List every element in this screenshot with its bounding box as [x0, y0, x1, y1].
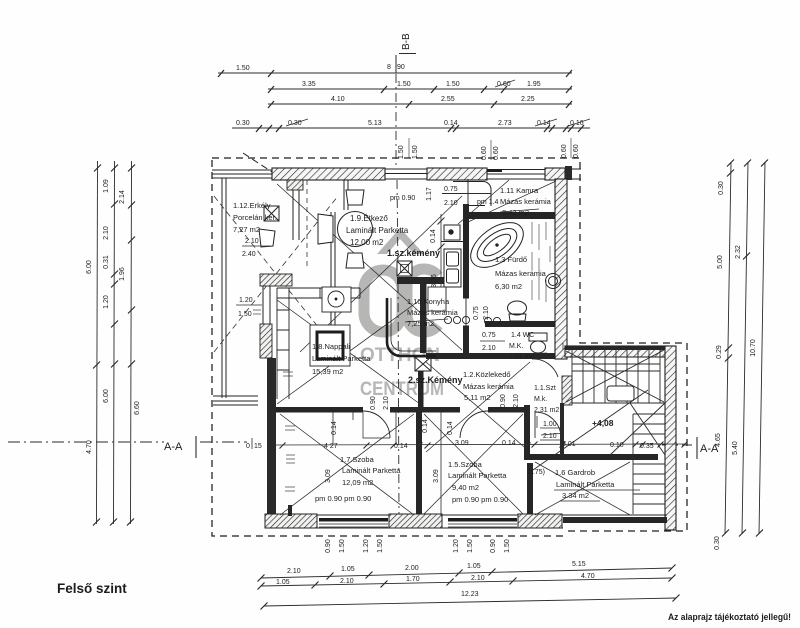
- dim row 0.30 0.30 5.13 0.14 2.73 0.14 0.16: [232, 127, 590, 129]
- svg-text:pm 0.90 pm 0.90: pm 0.90 pm 0.90: [452, 495, 508, 504]
- top wall window small: [487, 170, 545, 180]
- svg-text:3.01: 3.01: [562, 441, 576, 448]
- svg-text:pm 0.90: pm 0.90: [390, 195, 415, 202]
- overhead dashed line at door: [306, 180, 308, 270]
- svg-text:1.2.Közlekedő: 1.2.Közlekedő: [463, 370, 511, 379]
- svg-text:Felső szint: Felső szint: [57, 581, 127, 596]
- partition wall 1.7/1.5: [416, 412, 422, 517]
- roof slope diagonals room 1.7: [280, 414, 414, 515]
- svg-text:5.00: 5.00: [717, 255, 724, 269]
- svg-text:3.09: 3.09: [433, 469, 440, 483]
- watermark letter C: [407, 269, 438, 332]
- svg-text:2.14: 2.14: [119, 190, 126, 204]
- svg-text:3.09: 3.09: [325, 469, 332, 483]
- svg-text:4 27: 4 27: [324, 443, 338, 450]
- svg-text:8: 8: [387, 64, 391, 71]
- svg-text:2.10: 2.10: [483, 306, 490, 320]
- svg-text:2.10: 2.10: [245, 238, 259, 245]
- dimension chains bottom: [258, 561, 680, 610]
- svg-text:4.10: 4.10: [331, 96, 345, 103]
- svg-text:1.05: 1.05: [341, 566, 355, 573]
- section label B-B: [401, 33, 412, 50]
- svg-text:Laminált Parketta: Laminált Parketta: [342, 466, 401, 475]
- interior room dim line: [267, 442, 688, 449]
- svg-text:Laminált Parketta: Laminált Parketta: [346, 226, 409, 235]
- svg-text:1.5.Szoba: 1.5.Szoba: [448, 460, 483, 469]
- svg-text:Laminált Parketta: Laminált Parketta: [448, 471, 507, 480]
- svg-text:0.14: 0.14: [444, 120, 458, 127]
- bottom wall window 1: [319, 518, 388, 527]
- gardrob/stair bottom wall: [563, 517, 667, 523]
- svg-text:1.11 Kamra: 1.11 Kamra: [500, 186, 539, 195]
- bottom dim row 2: [261, 578, 672, 586]
- bath/wc divider wall: [485, 321, 567, 327]
- gardrob west wall: [527, 463, 533, 517]
- nappali counter top: [277, 288, 360, 298]
- roof slope diagonals gardrob: [535, 462, 630, 515]
- svg-text:Mázas kerámia: Mázas kerámia: [463, 382, 515, 391]
- dining table: [338, 212, 373, 247]
- watermark letter O: [364, 270, 402, 332]
- svg-text:pm 1.4: pm 1.4: [477, 199, 499, 206]
- main east wall hatched: [555, 179, 567, 359]
- svg-text:2.25: 2.25: [521, 96, 535, 103]
- dimension chains top: [218, 33, 590, 160]
- svg-text:6.00: 6.00: [103, 389, 110, 403]
- svg-text:2.10: 2.10: [103, 226, 110, 240]
- balcony door pier: [287, 180, 303, 190]
- partition stub at bottom wall: [288, 505, 292, 516]
- svg-text:2.55: 2.55: [441, 96, 455, 103]
- kitchen cabinet: [428, 287, 446, 311]
- svg-text:0.30: 0.30: [718, 181, 725, 195]
- svg-text:1.50: 1.50: [504, 539, 511, 553]
- bath washbasin: [546, 274, 561, 289]
- svg-text:1.8.Nappali: 1.8.Nappali: [312, 342, 350, 351]
- left chain line 2: [114, 161, 115, 524]
- svg-text:1.50: 1.50: [397, 81, 411, 88]
- bottom dim row 1: [261, 568, 672, 578]
- partition wall 1.5/stairs: [524, 405, 530, 460]
- svg-text:1.50: 1.50: [377, 539, 384, 553]
- section marker A-A right: [700, 443, 719, 455]
- svg-text:1.05: 1.05: [276, 579, 290, 586]
- top wall east end cap: [565, 166, 572, 180]
- svg-text:0.75): 0.75): [529, 469, 545, 476]
- bottom wall window 2: [448, 518, 517, 527]
- svg-text:1.95: 1.95: [527, 81, 541, 88]
- svg-text:1.9.Étkező: 1.9.Étkező: [350, 214, 388, 223]
- svg-text:15,39 m2: 15,39 m2: [312, 367, 343, 376]
- svg-text:6.00: 6.00: [86, 260, 93, 274]
- bottom wall band: [266, 515, 667, 528]
- roof slope diagonals nappali: [277, 300, 420, 404]
- outer dashed boundary: [212, 158, 687, 536]
- svg-text:10.70: 10.70: [750, 339, 757, 357]
- svg-text:1.96: 1.96: [119, 267, 126, 281]
- svg-text:0: 0: [246, 443, 250, 450]
- etkezo west glass wall: [331, 212, 335, 352]
- svg-text:1.7.Szoba: 1.7.Szoba: [340, 455, 375, 464]
- thin partition lines room 1.7: [333, 412, 441, 516]
- svg-text:0.14: 0.14: [430, 229, 437, 243]
- svg-text:1.20: 1.20: [239, 297, 253, 304]
- bottom wall hatched pier west: [265, 514, 317, 528]
- top wall hatched segment west: [272, 168, 385, 180]
- wc fixture: [529, 333, 547, 353]
- roof slope diagonal kamra: [458, 180, 556, 224]
- stair part east wall hatched: [665, 346, 676, 530]
- bottom dim row 3: [264, 598, 676, 606]
- szt door arcs: [535, 412, 561, 438]
- nappali cabinet vertical: [277, 288, 289, 399]
- chimney 1 block: [397, 261, 412, 276]
- svg-text:1.sz.kémény: 1.sz.kémény: [387, 248, 440, 258]
- balcony plant table: [264, 206, 279, 221]
- svg-text:pm 0.90 pm 0.90: pm 0.90 pm 0.90: [315, 494, 371, 503]
- svg-text:2.73: 2.73: [498, 120, 512, 127]
- chimney 2 block: [415, 357, 431, 371]
- svg-text:2.10: 2.10: [471, 575, 485, 582]
- svg-text:0.30: 0.30: [714, 536, 721, 550]
- svg-text:0.31: 0.31: [103, 255, 110, 269]
- kitchen small box with dot: [441, 225, 463, 242]
- right chain line 3: [759, 162, 765, 534]
- svg-text:2.40: 2.40: [242, 251, 256, 258]
- svg-text:Laminált Parketta: Laminált Parketta: [312, 354, 371, 363]
- right chain labels: [714, 181, 757, 550]
- dining chairs: [318, 190, 364, 268]
- svg-text:3.34 m2: 3.34 m2: [562, 491, 589, 500]
- dimension chains left: [8, 161, 247, 526]
- corridor top wall: [426, 353, 532, 359]
- svg-text:0.35: 0.35: [640, 443, 654, 450]
- svg-text:0.75: 0.75: [444, 186, 458, 193]
- main west wall lower: [267, 358, 276, 518]
- kamra door frame line: [467, 179, 469, 204]
- kitchen counter curved wall: [387, 298, 436, 356]
- svg-text:1.50: 1.50: [236, 65, 250, 72]
- svg-text:0.14: 0.14: [422, 419, 429, 433]
- svg-text:1.05: 1.05: [467, 563, 481, 570]
- stairs upper flight treads: [572, 350, 665, 403]
- svg-text:2.43 m2: 2.43 m2: [502, 208, 529, 217]
- svg-text:0.14: 0.14: [502, 440, 516, 447]
- kamra shelf counter: [453, 182, 491, 207]
- svg-text:0.29: 0.29: [716, 345, 723, 359]
- left chain labels: [86, 179, 141, 454]
- svg-text:6,30 m2: 6,30 m2: [495, 282, 522, 291]
- svg-text:2.10: 2.10: [482, 345, 496, 352]
- insulation marks west wall: [253, 310, 295, 491]
- svg-text:Porcelán ker.: Porcelán ker.: [233, 213, 277, 222]
- svg-text:0.75: 0.75: [482, 332, 496, 339]
- door arc room 1.5: [460, 411, 488, 438]
- svg-text:9,40 m2: 9,40 m2: [452, 483, 479, 492]
- svg-text:2.10: 2.10: [513, 394, 520, 408]
- svg-text:1.50: 1.50: [398, 145, 405, 159]
- right chain line 2: [742, 162, 748, 534]
- svg-text:0.14: 0.14: [447, 421, 454, 435]
- section line B-B vertical: [396, 74, 399, 515]
- balcony west rail: [222, 178, 226, 398]
- svg-text:1.1.Szt: 1.1.Szt: [534, 385, 556, 392]
- nappali sink unit: [322, 287, 351, 312]
- svg-text:2.10: 2.10: [383, 396, 390, 410]
- svg-text:+4,08: +4,08: [592, 418, 614, 428]
- bath toilet: [508, 301, 527, 321]
- watermark logo OC roof chevron: [360, 228, 444, 400]
- svg-text:0.60: 0.60: [573, 144, 580, 158]
- corridor west wall: [418, 371, 424, 407]
- svg-text:0.75: 0.75: [473, 306, 480, 320]
- svg-text:2.10: 2.10: [444, 200, 458, 207]
- svg-text:1.00: 1.00: [543, 421, 557, 428]
- svg-text:5.13: 5.13: [368, 120, 382, 127]
- szt 1.00 bracket: [537, 416, 562, 440]
- svg-text:1.4 WC: 1.4 WC: [511, 332, 534, 339]
- balcony chair 2: [259, 229, 275, 247]
- dim row 4.10 2.55 2.25: [268, 103, 572, 105]
- left chain line 3: [131, 161, 132, 524]
- svg-text:1.17: 1.17: [426, 187, 433, 201]
- svg-text:90: 90: [397, 64, 405, 71]
- balcony south edge: [213, 396, 258, 405]
- gardrob top wall: [530, 454, 658, 460]
- fireplace: [310, 325, 350, 366]
- top wall hatched segment east: [545, 168, 565, 180]
- svg-text:4.70: 4.70: [581, 573, 595, 580]
- svg-text:5,11 m2: 5,11 m2: [464, 393, 491, 402]
- svg-text:Laminált Parketta: Laminált Parketta: [556, 480, 615, 489]
- svg-text:6.60: 6.60: [134, 401, 141, 415]
- svg-text:12,09 m2: 12,09 m2: [342, 478, 373, 487]
- right chain line 1: [725, 162, 731, 534]
- svg-text:0.90: 0.90: [500, 394, 507, 408]
- roof slope diagonals etkezo: [277, 184, 462, 352]
- svg-text:1.50: 1.50: [446, 81, 460, 88]
- svg-text:2.31 m2: 2.31 m2: [534, 407, 559, 414]
- bottom wall hatched pier mid: [389, 514, 442, 528]
- svg-text:0.90: 0.90: [370, 396, 377, 410]
- svg-text:B-B: B-B: [401, 33, 412, 50]
- bottom wall hatched pier east: [518, 514, 562, 528]
- dashed interior overhang line stairs: [562, 343, 564, 350]
- plan body: [212, 74, 688, 536]
- stairs diagonal marks: [533, 350, 665, 470]
- svg-text:1.12.Erkély: 1.12.Erkély: [233, 201, 271, 210]
- svg-text:0.30: 0.30: [236, 120, 250, 127]
- dim row 8.90: [218, 72, 572, 74]
- svg-text:2.10: 2.10: [340, 578, 354, 585]
- kitchen west wall: [420, 281, 427, 353]
- svg-text:2.sz.Kémény: 2.sz.Kémény: [408, 375, 463, 385]
- szt east wall: [560, 403, 564, 455]
- bath west wall lower: [463, 326, 469, 353]
- balcony door frame lines: [293, 190, 299, 240]
- svg-text:1.09: 1.09: [103, 179, 110, 193]
- svg-text:0.14: 0.14: [394, 443, 408, 450]
- svg-text:1.20: 1.20: [453, 539, 460, 553]
- west wall pier hatched horizontal: [260, 274, 292, 286]
- bath west wall: [463, 204, 469, 298]
- top wall hatched segment mid: [427, 168, 487, 180]
- svg-text:0.90: 0.90: [325, 539, 332, 553]
- svg-text:5.15: 5.15: [572, 561, 586, 568]
- svg-text:2.32: 2.32: [735, 245, 742, 259]
- svg-text:3.06: 3.06: [431, 274, 438, 288]
- svg-text:1.20: 1.20: [363, 539, 370, 553]
- svg-text:3.35: 3.35: [302, 81, 316, 88]
- balcony diagonal dashed marks: [214, 196, 338, 352]
- stair part north wall: [565, 346, 668, 357]
- kitchen hob circles: [444, 316, 500, 324]
- svg-text:0.14: 0.14: [331, 421, 338, 435]
- svg-text:1.50: 1.50: [339, 539, 346, 553]
- svg-text:1.10 Konyha: 1.10 Konyha: [407, 297, 450, 306]
- svg-text:0.90: 0.90: [490, 539, 497, 553]
- stairs landing box: [607, 386, 634, 401]
- svg-text:5.40: 5.40: [732, 441, 739, 455]
- bathtub: [463, 214, 532, 277]
- rotated window dims 1.50 1.50: [398, 145, 419, 159]
- svg-text:M.k.: M.k.: [534, 396, 547, 403]
- svg-text:15: 15: [254, 443, 262, 450]
- door frame lines east: [344, 180, 348, 210]
- svg-text:M.K.: M.K.: [509, 343, 523, 350]
- svg-text:A-A: A-A: [164, 441, 183, 453]
- kitchen sink unit: [444, 249, 461, 287]
- roof slope diagonals room 1.5: [424, 414, 523, 514]
- svg-text:12.23: 12.23: [461, 591, 479, 598]
- west wall pier hatched vertical: [260, 324, 272, 358]
- dim row 3.35 1.50 1.50 0.60 1.95: [268, 88, 572, 90]
- wc bottom wall: [426, 353, 567, 359]
- boundary corner diagonal tick: [243, 153, 272, 172]
- corridor door arc to stairs: [532, 359, 558, 377]
- svg-text:1.20: 1.20: [103, 295, 110, 309]
- svg-text:12,00 m2: 12,00 m2: [350, 238, 384, 247]
- top balcony railing: [212, 170, 272, 178]
- svg-text:1.50: 1.50: [238, 311, 252, 318]
- interior dim line x441: [440, 214, 442, 296]
- kitchen north wall: [397, 277, 446, 284]
- bedroom top wall: [276, 407, 363, 413]
- bath door frame: [463, 298, 469, 326]
- svg-text:1.50: 1.50: [467, 539, 474, 553]
- rotated window dims 0.60 0.60: [481, 146, 500, 160]
- svg-text:Az alaprajz tájékoztató jelleg: Az alaprajz tájékoztató jellegű!: [668, 612, 791, 622]
- svg-text:1.3 Fürdő: 1.3 Fürdő: [495, 255, 527, 264]
- section marker A-A left: [164, 441, 183, 453]
- stair/szt pier hatched: [562, 376, 572, 405]
- left chain line 1: [97, 161, 98, 524]
- svg-text:1.50: 1.50: [412, 145, 419, 159]
- roof slope diagonal corridor: [426, 362, 530, 452]
- svg-text:0.60: 0.60: [561, 144, 568, 158]
- svg-text:1.6 Gardrob: 1.6 Gardrob: [555, 468, 595, 477]
- svg-text:0.10: 0.10: [610, 442, 624, 449]
- west room window lines: [263, 286, 270, 324]
- svg-text:3.09: 3.09: [455, 440, 469, 447]
- svg-text:2.10: 2.10: [287, 568, 301, 575]
- svg-text:Mázas kerámia: Mázas kerámia: [495, 269, 547, 278]
- svg-text:Mázas kerámia: Mázas kerámia: [500, 197, 552, 206]
- svg-text:A-A: A-A: [700, 443, 719, 455]
- top wall window west: [385, 169, 427, 179]
- kamra/bath divider wall: [467, 212, 567, 219]
- dimension chains right: [662, 160, 768, 550]
- bath tile squiggles: [532, 222, 550, 302]
- svg-text:1.70: 1.70: [406, 576, 420, 583]
- door arc room 1.7: [363, 411, 390, 438]
- svg-text:7,27 m2: 7,27 m2: [233, 225, 260, 234]
- svg-text:Mázas kerámia: Mázas kerámia: [407, 308, 459, 317]
- svg-text:2.00: 2.00: [405, 565, 419, 572]
- stairs lower flight treads: [633, 414, 665, 514]
